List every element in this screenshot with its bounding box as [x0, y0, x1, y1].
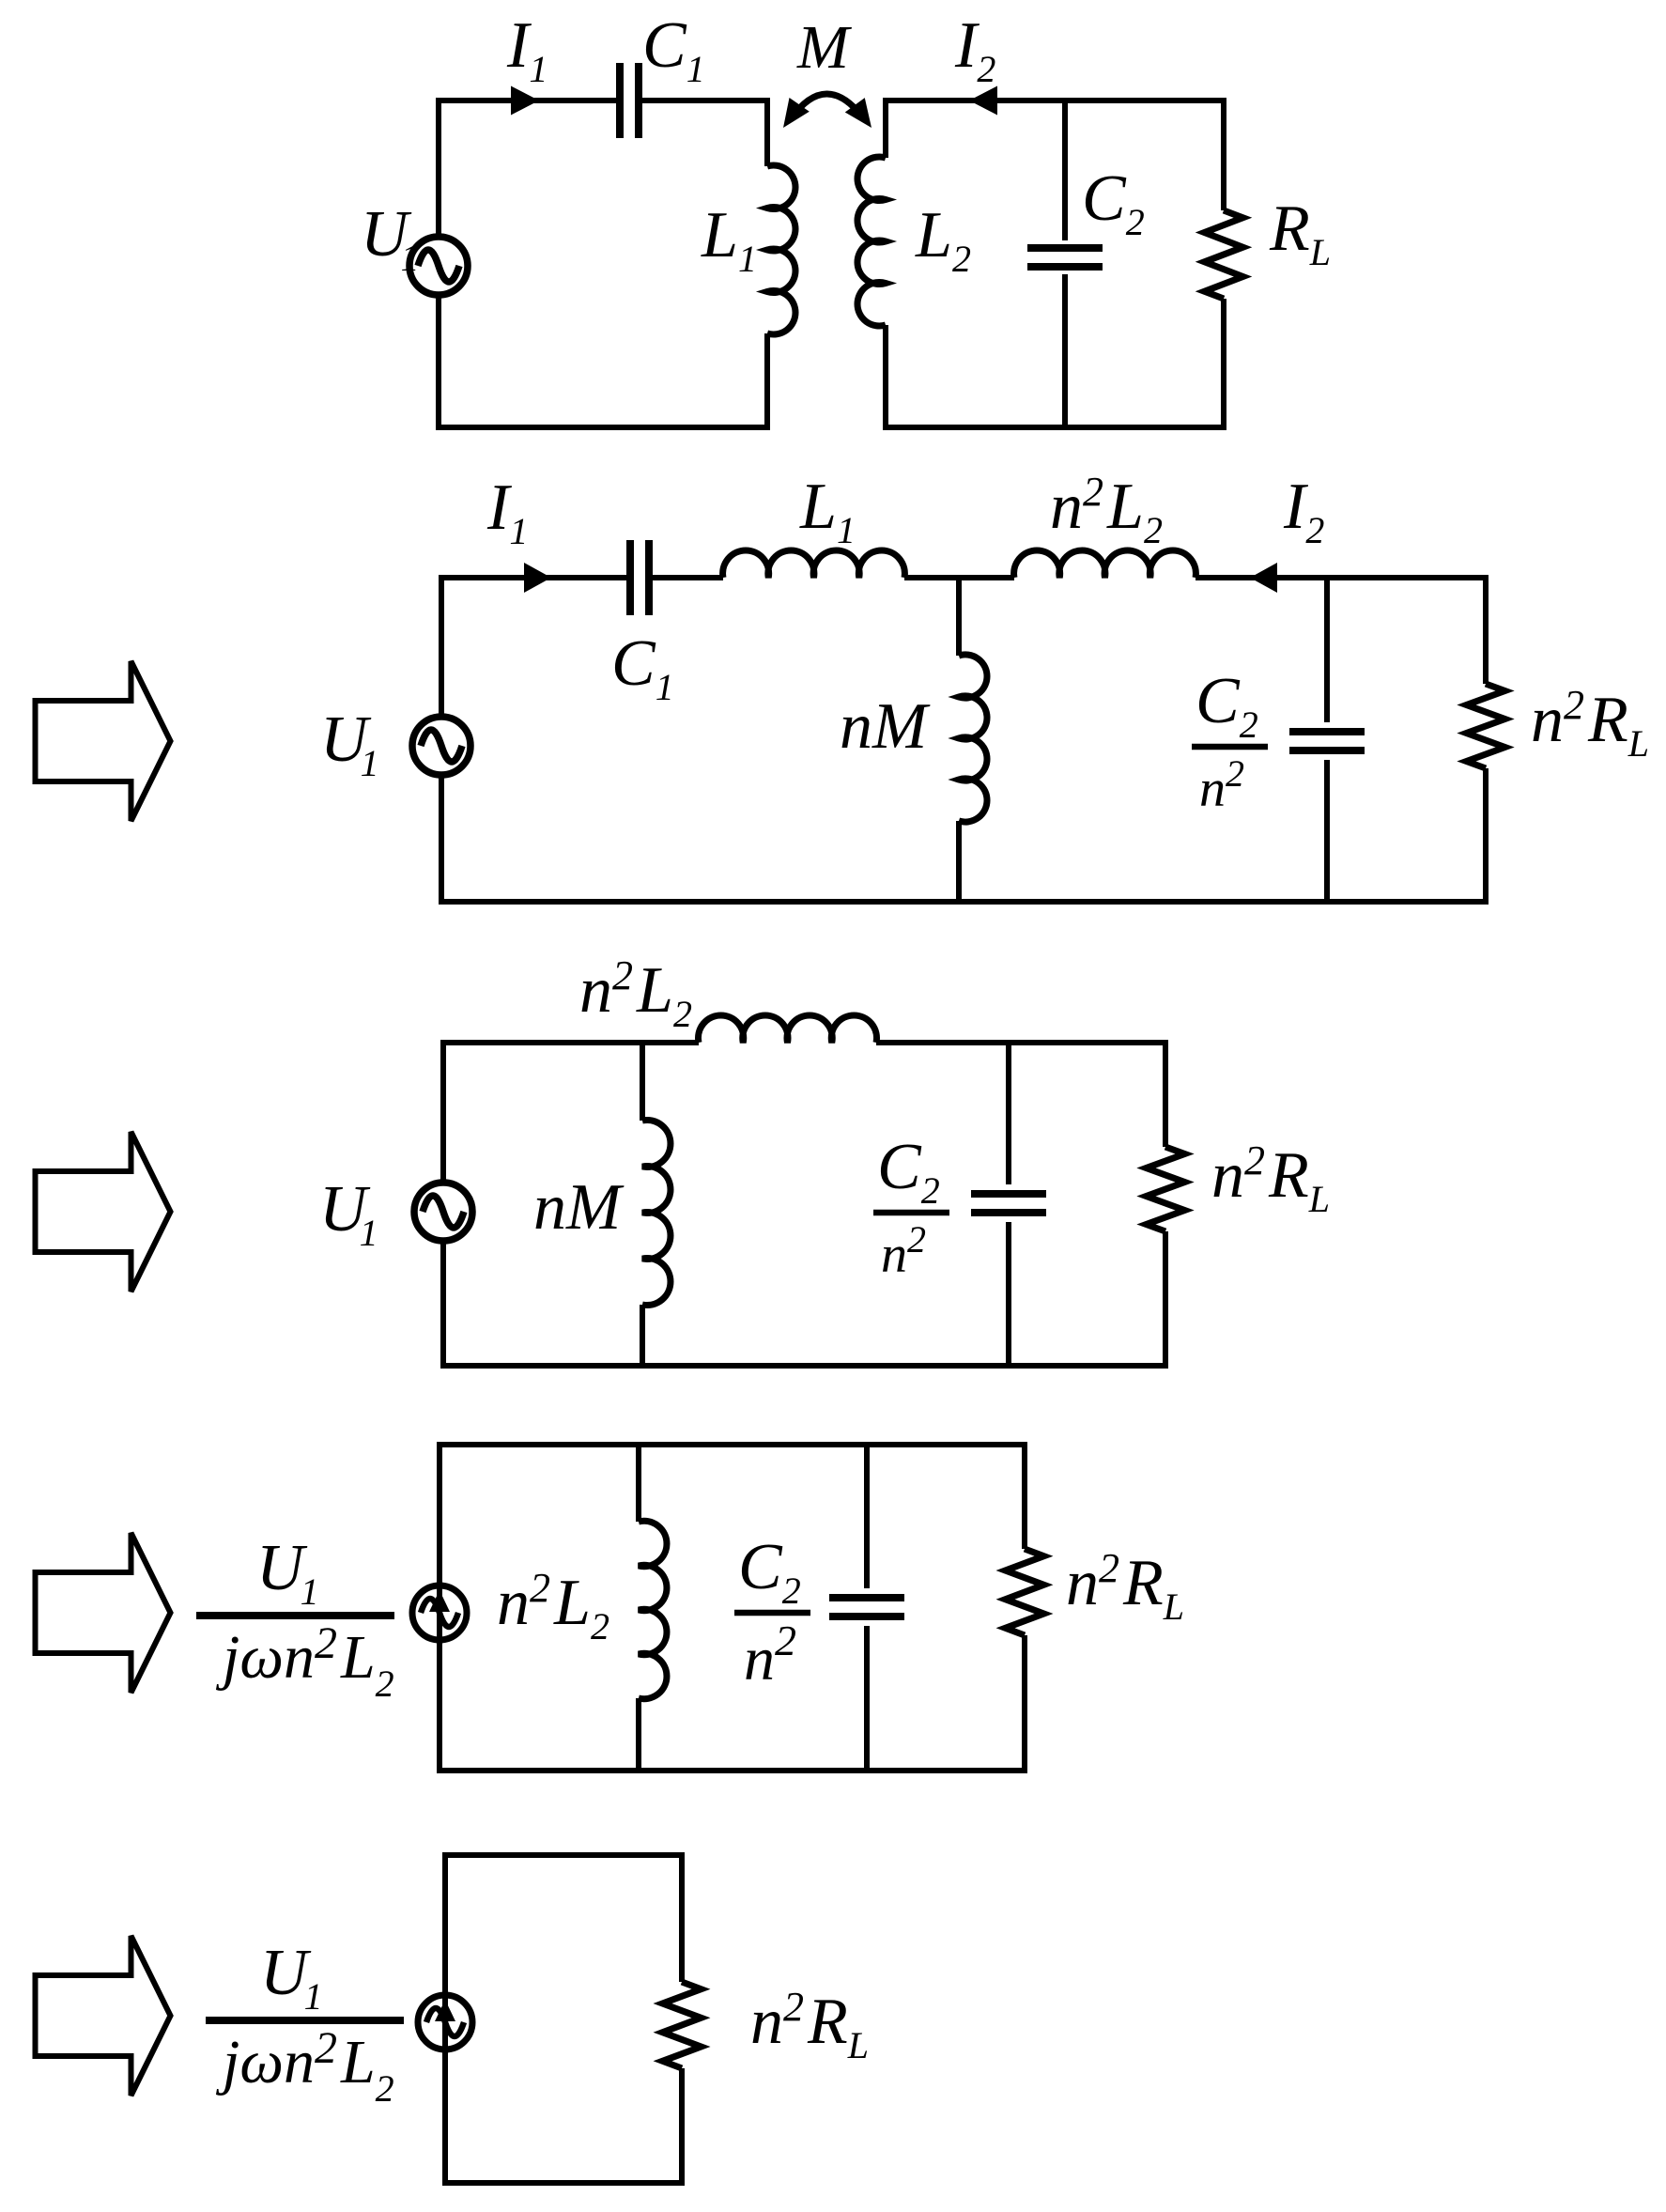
- inductor n2L2 (circuit 3): [699, 1015, 877, 1043]
- voltage source U1 (circuit 2): [439, 578, 444, 718]
- current source U1/jwn2L2 (circuit 4): [437, 1445, 442, 1771]
- resistor n2RL (circuit 4): [1022, 1445, 1027, 1549]
- wire bottom secondary (circuit 1): [883, 425, 1226, 430]
- wire n2L2 to right (circuit 2): [1196, 575, 1489, 580]
- voltage source U1 (circuit 3): [440, 1043, 446, 1183]
- wire top (circuit 5): [442, 1852, 685, 1858]
- inductor n2L2 (circuit 2): [1014, 550, 1196, 578]
- mutual coupling arrow M (circuit 1): [790, 94, 865, 120]
- capacitor C2/n2 (circuit 2): [1324, 578, 1330, 722]
- wire top-left (circuit 3): [440, 1040, 699, 1045]
- current arrow I2 (circuit 1): [969, 86, 997, 116]
- capacitor C2 (circuit 1): [1062, 101, 1068, 240]
- wire bottom (circuit 4): [437, 1768, 1027, 1773]
- svg-text:nM: nM: [840, 690, 931, 763]
- inductor nM (circuit 3): [640, 1043, 645, 1121]
- inductor nM (circuit 2): [956, 578, 962, 656]
- wire top (circuit 4): [437, 1442, 1027, 1447]
- wire bottom (circuit 3): [440, 1363, 1168, 1369]
- svg-text:M: M: [796, 13, 853, 82]
- wire top secondary (circuit 1): [883, 98, 1226, 103]
- capacitor C2/n2 (circuit 4): [864, 1445, 870, 1588]
- wire bottom primary (circuit 1): [436, 425, 770, 430]
- voltage source U1 (circuit 1): [436, 101, 441, 237]
- inductor L1 (circuit 2): [723, 550, 905, 578]
- transform arrow (circuit 4): [36, 1533, 171, 1693]
- wire source to C1 (circuit 2): [439, 575, 626, 580]
- transform arrow (circuit 5): [36, 1936, 171, 2096]
- resistor n2RL (circuit 3): [1163, 1043, 1168, 1147]
- current arrow I2 (circuit 2): [1250, 563, 1277, 593]
- capacitor C1 (circuit 2): [626, 540, 634, 615]
- resistor RL (circuit 1): [1221, 98, 1226, 210]
- capacitor C2/n2 (circuit 3): [1006, 1043, 1011, 1184]
- wire C1 to L1 (circuit 2): [653, 575, 723, 580]
- resistor n2RL (circuit 5): [679, 1855, 685, 1982]
- resistor n2RL (circuit 2): [1483, 578, 1489, 684]
- current arrow I1 (circuit 2): [524, 563, 551, 593]
- wire n2L2 to right (circuit 3): [876, 1040, 1168, 1045]
- wire bottom (circuit 5): [442, 2180, 685, 2186]
- inductor L2 (circuit 1): [883, 98, 888, 158]
- wire C1 to L1 (circuit 1): [642, 98, 770, 103]
- wire top-left primary (circuit 1): [436, 98, 616, 103]
- wire bottom (circuit 2): [439, 899, 1489, 905]
- capacitor C1 (circuit 1): [616, 63, 624, 138]
- inductor n2L2 (circuit 4): [636, 1445, 641, 1522]
- wire L1 to n2L2 junction (circuit 2): [904, 575, 1014, 580]
- transform arrow (circuit 3): [36, 1132, 171, 1292]
- transform arrow (circuit 2): [36, 661, 171, 821]
- current arrow I1 (circuit 1): [511, 86, 539, 116]
- inductor L1 (circuit 1): [764, 98, 770, 166]
- current source U1/jwn2L2 (circuit 5): [442, 1855, 448, 2183]
- svg-text:nM: nM: [533, 1171, 625, 1244]
